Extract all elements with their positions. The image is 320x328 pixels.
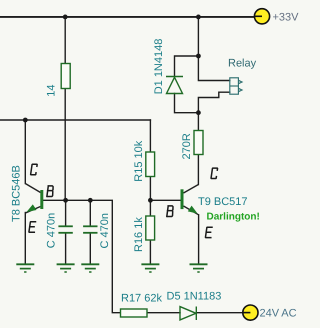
svg-text:C 470n: C 470n (46, 213, 58, 248)
svg-text:T9 BC517: T9 BC517 (198, 196, 248, 208)
svg-text:R15 10k: R15 10k (133, 140, 145, 181)
svg-text:AC: AC (281, 308, 296, 320)
svg-text:270R: 270R (181, 133, 193, 159)
svg-text:C 470n: C 470n (99, 213, 111, 248)
svg-text:Darlington!: Darlington! (207, 212, 260, 223)
svg-text:Relay: Relay (228, 58, 257, 70)
svg-text:D1 1N4148: D1 1N4148 (153, 39, 165, 95)
svg-text:24V: 24V (260, 308, 280, 320)
svg-text:D5 1N1183: D5 1N1183 (167, 291, 222, 303)
svg-text:T8 BC546B: T8 BC546B (11, 165, 23, 222)
svg-text:+33V: +33V (273, 12, 300, 24)
svg-text:R17 62k: R17 62k (121, 292, 162, 304)
svg-text:R16 1k: R16 1k (133, 217, 145, 252)
svg-text:14: 14 (45, 85, 57, 97)
